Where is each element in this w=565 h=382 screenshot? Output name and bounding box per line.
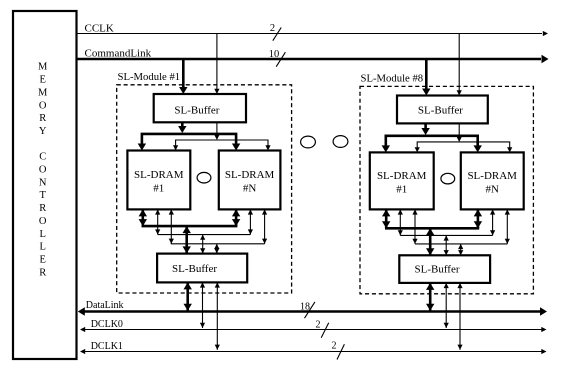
svg-text:#N: #N	[243, 183, 257, 195]
svg-text:SL-DRAM: SL-DRAM	[225, 169, 275, 181]
wire dclk0 rail (module 8)	[400, 234, 492, 236]
label DataLink	[86, 300, 124, 311]
wire SL-DRAM #N (module 8) data link	[474, 209, 482, 228]
wire SL-DRAM #N (module 1) dclk0 link	[248, 209, 253, 234]
SL-DRAM #N (module 1) label	[225, 169, 275, 195]
svg-text:O: O	[39, 100, 47, 111]
SL-DRAM #N (module 8) label	[467, 170, 517, 196]
wire dclk0 rail (module 1)	[158, 234, 251, 236]
label SL-Module #1	[118, 71, 181, 83]
label DCLK1	[91, 341, 123, 352]
wire CommandLink drop into module 8 top SL-Buffer	[422, 59, 430, 96]
svg-text:SL-DRAM: SL-DRAM	[467, 170, 517, 182]
wire clock feed from module 1 top SL-Buffer to clock rail	[214, 122, 219, 140]
SL-DRAM #N (module 1) box	[219, 151, 281, 210]
wire command rail (module 8)	[382, 136, 482, 153]
wire clock feed from module 8 top SL-Buffer to clock rail	[457, 123, 462, 142]
SL-DRAM #1 (module 8) label	[377, 170, 427, 196]
SL-DRAM #1 (module 8) box	[370, 152, 434, 209]
svg-text:N: N	[39, 177, 47, 188]
svg-text:M: M	[38, 62, 48, 73]
module SL-Module #8 dashed box	[360, 86, 533, 293]
label DCLK0	[91, 319, 123, 330]
wire CommandLink bus	[77, 55, 549, 63]
wire dclk0 rail to module 8 bottom SL-Buffer	[444, 235, 449, 255]
SL-Buffer (module 8 bottom) box	[399, 255, 490, 283]
memory controller box	[13, 11, 77, 359]
svg-text:SL-Module #8: SL-Module #8	[361, 73, 424, 85]
wire SL-DRAM #1 (module 1) data link	[139, 209, 147, 226]
svg-text:R: R	[39, 203, 46, 214]
svg-text:R: R	[39, 113, 46, 124]
SL-Buffer (module 1 top) box	[154, 94, 246, 122]
svg-text:T: T	[39, 190, 46, 201]
wire DataLink bus	[78, 307, 547, 315]
svg-text:SL-Buffer: SL-Buffer	[418, 104, 463, 116]
wire module 8 bottom SL-Buffer to DCLK1	[457, 283, 462, 350]
wire SL-DRAM #N (module 1) dclk1 link	[262, 209, 267, 243]
SL-Buffer (module 1 bottom) label	[172, 263, 217, 275]
svg-text:L: L	[39, 229, 45, 240]
bus width 2 (DCLK1)	[332, 341, 345, 360]
wire module 8 bottom SL-Buffer to DCLK0	[444, 283, 449, 328]
wire SL-DRAM #N (module 1) data link	[232, 209, 240, 226]
wire SL-DRAM #1 (module 1) dclk1 link	[169, 209, 174, 243]
svg-text:CommandLink: CommandLink	[85, 48, 152, 60]
svg-text:O: O	[39, 165, 47, 176]
wire command feed from module 8 top SL-Buffer to command rail	[421, 123, 429, 135]
svg-text:M: M	[38, 87, 48, 98]
wire data rail to module 8 bottom SL-Buffer	[426, 228, 434, 255]
svg-text:R: R	[39, 267, 46, 278]
wire data rail (module 1)	[142, 225, 238, 228]
label SL-Module #8	[361, 73, 424, 85]
wire module 1 bottom SL-Buffer to DataLink	[184, 282, 192, 310]
svg-text:#N: #N	[485, 184, 499, 196]
SL-Buffer (module 1 bottom) box	[157, 254, 247, 283]
ellipsis between SL-DRAMs (module 1)	[197, 172, 211, 183]
svg-text:O: O	[39, 216, 47, 227]
svg-text:18: 18	[300, 302, 310, 313]
svg-text:SL-Buffer: SL-Buffer	[174, 105, 219, 117]
bus width 2 (CCLK)	[270, 23, 281, 41]
SL-Buffer (module 8 top) box	[397, 96, 488, 124]
svg-text:DCLK1: DCLK1	[91, 341, 123, 352]
wire module 8 bottom SL-Buffer to DataLink	[426, 283, 434, 311]
wire module 1 bottom SL-Buffer to DCLK0	[200, 282, 205, 328]
SL-DRAM #1 (module 1) label	[134, 169, 184, 195]
svg-text:E: E	[39, 75, 45, 86]
ellipsis dot between modules (right)	[333, 136, 348, 148]
bus width 2 (DCLK0)	[316, 320, 329, 338]
svg-text:2: 2	[270, 23, 275, 34]
wire CommandLink drop into module 1 top SL-Buffer	[179, 59, 187, 94]
label CCLK	[85, 23, 114, 35]
SL-Buffer (module 8 top) label	[418, 104, 463, 116]
ellipsis between SL-DRAMs (module 8)	[441, 173, 455, 184]
wire clock rail (module 8)	[415, 142, 513, 153]
svg-text:SL-Buffer: SL-Buffer	[414, 264, 459, 276]
wire SL-DRAM #1 (module 8) dclk1 link	[412, 209, 417, 244]
svg-text:DCLK0: DCLK0	[91, 319, 123, 330]
wire DCLK1 bus	[80, 349, 547, 354]
svg-text:SL-DRAM: SL-DRAM	[134, 169, 184, 181]
wire dclk1 rail to module 8 bottom SL-Buffer	[458, 244, 463, 255]
svg-text:SL-Module #1: SL-Module #1	[118, 71, 181, 83]
svg-text:10: 10	[269, 49, 280, 60]
wire DCLK0 bus	[80, 327, 547, 332]
svg-text:DataLink: DataLink	[86, 300, 124, 311]
wire CCLK drop into module 1 top SL-Buffer	[214, 34, 219, 95]
wire dclk0 rail to module 1 bottom SL-Buffer	[200, 235, 205, 254]
wire SL-DRAM #1 (module 1) dclk0 link	[155, 209, 160, 234]
bus width 18 (DataLink)	[300, 302, 315, 319]
wire SL-DRAM #1 (module 8) data link	[382, 209, 390, 228]
SL-DRAM #1 (module 1) box	[127, 151, 190, 210]
wire dclk1 rail (module 8)	[415, 243, 507, 245]
memory controller label MEMORY CONTROLLER	[38, 62, 48, 279]
svg-text:L: L	[39, 242, 45, 253]
ellipsis dot between modules (left)	[301, 136, 316, 148]
wire module 1 bottom SL-Buffer to DCLK1	[215, 282, 220, 349]
svg-text:SL-DRAM: SL-DRAM	[377, 170, 427, 182]
svg-text:C: C	[39, 152, 46, 163]
wire CCLK bus	[77, 31, 549, 36]
svg-text:E: E	[39, 254, 45, 265]
label CommandLink	[85, 48, 152, 60]
wire clock rail (module 1)	[173, 140, 271, 151]
svg-text:SL-Buffer: SL-Buffer	[172, 263, 217, 275]
svg-text:#1: #1	[396, 184, 407, 196]
svg-text:CCLK: CCLK	[85, 23, 114, 35]
SL-DRAM #N (module 8) box	[461, 152, 524, 209]
SL-Buffer (module 8 bottom) label	[414, 264, 459, 276]
bus width 10 (CommandLink)	[269, 49, 286, 67]
wire command feed from module 1 top SL-Buffer to command rail	[178, 122, 186, 133]
svg-text:#1: #1	[153, 183, 164, 195]
wire CCLK drop into module 8 top SL-Buffer	[457, 34, 462, 96]
wire command rail (module 1)	[138, 134, 241, 151]
SL-Buffer (module 1 top) label	[174, 105, 219, 117]
wire SL-DRAM #N (module 8) dclk0 link	[490, 209, 495, 235]
wire dclk1 rail to module 1 bottom SL-Buffer	[214, 244, 219, 254]
wire data rail to module 1 bottom SL-Buffer	[183, 226, 191, 253]
wire data rail (module 8)	[385, 227, 479, 230]
wire dclk1 rail (module 1)	[171, 243, 265, 245]
wire SL-DRAM #N (module 8) dclk1 link	[505, 209, 510, 244]
svg-text:2: 2	[332, 341, 337, 352]
module SL-Module #1 dashed box	[117, 85, 292, 293]
svg-text:Y: Y	[39, 126, 47, 137]
wire SL-DRAM #1 (module 8) dclk0 link	[398, 209, 403, 235]
svg-text:2: 2	[316, 320, 321, 331]
